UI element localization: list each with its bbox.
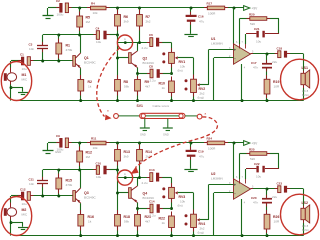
svg-text:SV1: SV1 [137, 104, 144, 108]
svg-text:R24: R24 [207, 137, 213, 141]
svg-text:R11: R11 [91, 137, 97, 141]
wire node B [43, 169, 97, 171]
annotation ellipse mic [1, 62, 31, 101]
capacitor C22 [246, 168, 256, 170]
svg-text:BC549C: BC549C [84, 61, 96, 65]
svg-text:R16: R16 [88, 215, 94, 219]
svg-text:3k9: 3k9 [124, 155, 129, 159]
resistor R9 [135, 80, 141, 92]
wire op-amp pins [233, 8, 235, 44]
svg-text:R19: R19 [273, 80, 279, 84]
wire pin2 [214, 57, 234, 59]
annotation ellipse speaker [281, 194, 319, 235]
svg-text:R9: R9 [145, 80, 150, 84]
svg-text:C22: C22 [254, 162, 260, 166]
svg-text:10u: 10u [22, 202, 27, 206]
svg-text:10R: 10R [274, 85, 280, 89]
capacitor C11 [42, 170, 44, 180]
annotation ellipse speaker [281, 59, 319, 100]
svg-text:C14: C14 [149, 200, 155, 204]
svg-text:LS2: LS2 [302, 201, 308, 205]
svg-text:C6: C6 [149, 33, 153, 37]
wire node B [43, 34, 97, 36]
wire pin stubs [56, 142, 59, 144]
svg-text:Q1: Q1 [84, 56, 89, 60]
resistor R7 [139, 8, 141, 15]
capacitor C14 [138, 208, 151, 210]
svg-text:BC109C: BC109C [143, 196, 155, 200]
svg-text:R1: R1 [66, 44, 71, 48]
svg-text:LM386N: LM386N [211, 42, 223, 46]
svg-text:2.2u: 2.2u [142, 46, 148, 50]
speaker LS2 [303, 206, 305, 209]
resistor R4 [91, 6, 107, 10]
svg-text:R5: R5 [86, 16, 91, 20]
svg-text:10R: 10R [274, 220, 280, 224]
svg-text:RV4: RV4 [199, 222, 206, 226]
svg-text:R21: R21 [145, 215, 151, 219]
svg-text:R2: R2 [88, 80, 93, 84]
svg-text:LS1: LS1 [302, 66, 308, 70]
resistor R22 [169, 216, 175, 228]
svg-text:RV2: RV2 [199, 87, 206, 91]
svg-text:47n: 47n [253, 200, 258, 204]
ground GND1 [47, 8, 49, 15]
wire pin3 [209, 184, 234, 186]
annotation circle node A [117, 35, 132, 50]
svg-text:C18: C18 [277, 47, 283, 51]
svg-text:C16: C16 [198, 15, 204, 19]
wire pin3 [209, 49, 234, 51]
svg-text:C13: C13 [149, 168, 155, 172]
svg-text:C21: C21 [254, 27, 260, 31]
wire node A [117, 170, 119, 215]
op-amp U2 [234, 179, 251, 199]
supply +9V [244, 141, 250, 146]
capacitor C13 [150, 173, 153, 182]
connector terminal a right [197, 114, 202, 119]
svg-text:10u: 10u [22, 67, 27, 71]
svg-text:R12: R12 [86, 151, 92, 155]
transistor Q3 [73, 191, 76, 202]
svg-text:R20: R20 [249, 13, 255, 17]
svg-text:C23: C23 [277, 182, 283, 186]
svg-text:M1: M1 [22, 73, 27, 77]
svg-text:R17: R17 [207, 2, 213, 6]
resistor R17 [207, 6, 224, 10]
svg-text:+9V: +9V [252, 7, 259, 11]
svg-text:10u: 10u [96, 40, 101, 44]
svg-text:2.2u: 2.2u [142, 181, 148, 185]
svg-text:C3: C3 [29, 43, 33, 47]
svg-text:56k: 56k [124, 85, 129, 89]
svg-text:GND: GND [163, 133, 169, 137]
svg-text:8ohm: 8ohm [302, 228, 310, 232]
resistor R10 [169, 81, 175, 93]
svg-text:MIC: MIC [22, 78, 28, 82]
svg-text:C10: C10 [96, 162, 102, 166]
wire output [251, 53, 254, 55]
svg-text:R6: R6 [124, 15, 129, 19]
resistor R8 [115, 80, 121, 92]
wire cable to terminal right [185, 115, 197, 117]
svg-text:10n: 10n [29, 47, 34, 51]
svg-text:1M: 1M [86, 20, 91, 24]
svg-text:1k: 1k [88, 85, 92, 89]
svg-text:10u: 10u [256, 175, 261, 179]
resistor R12 [79, 143, 81, 151]
svg-text:R7: R7 [146, 15, 151, 19]
svg-text:C11: C11 [29, 178, 35, 182]
svg-text:MIC: MIC [22, 213, 28, 217]
node A [124, 176, 127, 179]
svg-text:1M: 1M [86, 155, 91, 159]
resistor R26 [264, 214, 270, 229]
capacitor C17 [266, 54, 268, 63]
wire +9V rail [48, 7, 59, 9]
capacitor C8 [138, 73, 151, 75]
wire ground rail [15, 100, 304, 102]
potentiometer RV4 [193, 193, 195, 214]
capacitor C9 [59, 138, 62, 148]
svg-text:R4: R4 [91, 2, 95, 6]
svg-text:1k: 1k [162, 86, 166, 90]
wire ground rail [15, 235, 304, 237]
resistor R1 [58, 35, 60, 43]
svg-text:R14: R14 [146, 150, 152, 154]
wire terminal to cable [118, 115, 139, 117]
svg-text:2.2u: 2.2u [150, 79, 156, 83]
annotation dashed path cable to node A lower [136, 117, 218, 168]
svg-text:Q4: Q4 [143, 192, 148, 196]
supply +9V [244, 6, 250, 11]
svg-text:8ohm: 8ohm [302, 93, 310, 97]
svg-text:100R: 100R [208, 12, 216, 16]
svg-text:47u: 47u [199, 155, 204, 159]
junction rail [78, 142, 81, 145]
wire node A [117, 35, 119, 80]
resistor R20 [250, 17, 267, 21]
transistor Q2 [118, 57, 129, 59]
svg-text:(lin): (lin) [178, 204, 183, 208]
capacitor C4 [96, 31, 99, 40]
capacitor C20 [266, 189, 268, 198]
svg-text:A: A [124, 172, 126, 176]
svg-text:U2: U2 [211, 172, 216, 176]
svg-text:5k6: 5k6 [250, 157, 255, 161]
ground GND2 [47, 143, 49, 150]
svg-text:R8: R8 [124, 80, 129, 84]
svg-text:47u: 47u [199, 20, 204, 24]
svg-text:47n: 47n [253, 65, 258, 69]
svg-text:C2: C2 [56, 0, 60, 3]
ground cable left [144, 119, 146, 128]
svg-text:C12: C12 [20, 188, 26, 192]
svg-text:100u: 100u [57, 13, 64, 17]
svg-text:+9V: +9V [252, 142, 259, 146]
svg-text:R10: R10 [159, 82, 165, 86]
wire output [251, 188, 254, 190]
resistor R19 [264, 79, 270, 94]
resistor R24 [207, 141, 224, 145]
node A [124, 41, 127, 44]
svg-text:C9: C9 [56, 134, 60, 138]
svg-text:R26: R26 [273, 215, 279, 219]
svg-text:470k: 470k [66, 48, 73, 52]
resistor R15 [58, 170, 60, 178]
svg-text:10n: 10n [29, 182, 34, 186]
speaker LS1 [303, 71, 305, 74]
svg-text:56k: 56k [124, 220, 129, 224]
annotation ellipse mic [1, 197, 31, 236]
capacitor C6 [150, 38, 153, 47]
microphone M2 [10, 196, 12, 203]
capacitor C10 [96, 166, 99, 175]
capacitor C18 [278, 51, 281, 58]
wire pin4 ground [241, 199, 243, 236]
resistor R18 [115, 215, 121, 227]
transistor Q4 [118, 192, 129, 194]
resistor R11 [91, 141, 107, 145]
svg-text:4k7: 4k7 [145, 85, 150, 89]
transistor Q1 [73, 56, 76, 67]
annotation dashed path node A to cable [97, 48, 120, 117]
svg-text:10u: 10u [256, 40, 261, 44]
svg-text:3k9: 3k9 [124, 20, 129, 24]
capacitor C12 [11, 195, 21, 197]
svg-text:(log): (log) [198, 231, 204, 235]
svg-text:(lin): (lin) [178, 69, 183, 73]
resistor R14 [139, 143, 141, 150]
svg-text:10u: 10u [96, 175, 101, 179]
resistor R6 [117, 8, 119, 15]
capacitor C19 [190, 143, 192, 150]
svg-text:A: A [124, 37, 126, 41]
wire pin stubs [56, 7, 59, 9]
svg-text:Q3: Q3 [84, 191, 89, 195]
svg-text:1k: 1k [162, 221, 166, 225]
svg-text:470k: 470k [66, 183, 73, 187]
connector SV1 cable [140, 113, 185, 118]
svg-text:R13: R13 [124, 150, 130, 154]
resistor R5 [79, 8, 81, 16]
svg-text:(log): (log) [198, 96, 204, 100]
wire +9V rail [48, 142, 59, 144]
svg-text:100u: 100u [57, 148, 64, 152]
svg-text:10k: 10k [93, 11, 98, 15]
svg-text:10k: 10k [93, 146, 98, 150]
resistor R2 [78, 80, 84, 92]
svg-text:R18: R18 [124, 215, 130, 219]
op-amp U1 [234, 44, 251, 64]
svg-text:BC549C: BC549C [84, 196, 96, 200]
microphone M1 [10, 61, 12, 68]
junction rail [78, 7, 81, 10]
resistor R25 [250, 152, 267, 156]
svg-text:5k6: 5k6 [250, 22, 255, 26]
capacitor C21 [246, 33, 256, 35]
capacitor C2 [59, 3, 62, 13]
wire pin2 [214, 192, 234, 194]
potentiometer RV3 [171, 178, 173, 188]
ground cable right [167, 119, 169, 128]
svg-text:R15: R15 [66, 179, 72, 183]
svg-text:22u: 22u [272, 195, 277, 199]
resistor R16 [78, 215, 84, 227]
svg-text:BC109C: BC109C [143, 61, 155, 65]
svg-text:R25: R25 [249, 148, 255, 152]
capacitor C23 [278, 186, 281, 193]
svg-text:U1: U1 [211, 37, 216, 41]
svg-text:C1: C1 [20, 53, 24, 57]
connector terminal a left [114, 114, 119, 119]
svg-text:1k: 1k [88, 220, 92, 224]
capacitor C16 [190, 8, 192, 15]
svg-text:C19: C19 [198, 150, 204, 154]
svg-text:Q2: Q2 [143, 57, 148, 61]
svg-text:R22: R22 [159, 217, 165, 221]
svg-text:4k7: 4k7 [145, 220, 150, 224]
annotation circle node A [117, 170, 132, 185]
resistor R13 [117, 143, 119, 150]
potentiometer RV1 [171, 43, 173, 53]
svg-text:100R: 100R [208, 147, 216, 151]
wire pin4 ground [241, 64, 243, 101]
capacitor C1 [11, 60, 21, 62]
potentiometer RV2 [193, 58, 195, 79]
svg-text:C8: C8 [149, 65, 153, 69]
resistor R21 [135, 215, 141, 227]
svg-text:LM386N: LM386N [211, 177, 223, 181]
svg-text:GND: GND [140, 133, 146, 137]
svg-text:M2: M2 [22, 208, 27, 212]
wire op-amp pins [233, 143, 235, 179]
svg-text:C4: C4 [96, 27, 100, 31]
svg-text:Cable xxxxx: Cable xxxxx [153, 104, 170, 108]
svg-text:2k2: 2k2 [146, 20, 151, 24]
capacitor C3 [42, 35, 44, 45]
svg-text:22u: 22u [272, 60, 277, 64]
